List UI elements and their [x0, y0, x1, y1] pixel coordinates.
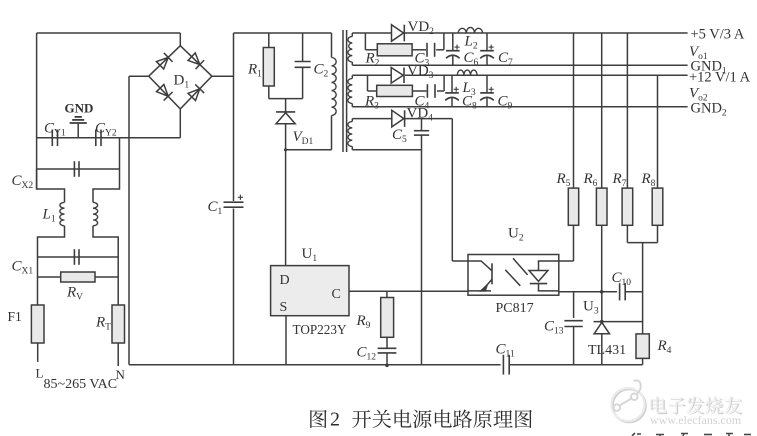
- wire bias winding top: [352, 118, 392, 120]
- wire RT to N terminal: [117, 343, 119, 366]
- wire top rail (AC live to bridge): [37, 32, 181, 34]
- inductor L1 right winding: [93, 202, 98, 225]
- capacitor C7: [486, 33, 488, 50]
- wire bias column down to U2 collector pin: [451, 119, 453, 261]
- resistor RV (varistor) row: [38, 276, 61, 278]
- transformer secondary winding 2 (+12V): [351, 75, 353, 78]
- inductor L1 left winding: [60, 202, 65, 225]
- transformer secondary winding 1 (+5V): [351, 33, 353, 37]
- wire drain column to U1 D pin: [285, 150, 287, 266]
- fuse F1: [31, 305, 44, 343]
- wire R1/C2 bottom: [269, 98, 303, 100]
- wire snubber1 left stub: [364, 33, 366, 50]
- transformer core: [342, 30, 344, 152]
- capacitor C3: [426, 43, 428, 57]
- resistor R1: [268, 33, 270, 48]
- wire secondary bottom rail: [509, 364, 642, 366]
- caption 开关电源电路原理图: [352, 410, 371, 428]
- wire primary bottom rail: [129, 364, 501, 366]
- diode D1 top-right arm: [187, 52, 204, 69]
- wire left rail: [36, 33, 38, 190]
- svg-text:GND: GND: [65, 101, 94, 116]
- capacitor CX1 row: [38, 256, 119, 258]
- capacitor CY1: [51, 130, 53, 147]
- wire R5 to U2 LED anode: [573, 225, 575, 261]
- svg-text:85~265 VAC: 85~265 VAC: [44, 377, 118, 392]
- node GND line with capacitor CY1 / CY2 row: [37, 137, 181, 139]
- inductor L2: [458, 27, 482, 33]
- wire bridge top stub: [179, 33, 181, 46]
- wire U2 LED cathode line: [559, 291, 617, 293]
- capacitor CY2: [95, 130, 97, 147]
- wire R6 down to feedback node: [601, 225, 603, 291]
- wire U1 source pin to bottom rail: [285, 316, 287, 365]
- svg-text:+5 V/3 A: +5 V/3 A: [691, 27, 745, 43]
- wire filter left elbow: [37, 169, 65, 202]
- svg-text:F1: F1: [8, 309, 22, 324]
- svg-text:2: 2: [330, 409, 340, 431]
- capacitor C4: [426, 84, 428, 98]
- transformer primary winding: [331, 33, 333, 58]
- capacitor C2: [302, 33, 304, 62]
- svg-text:GND2: GND2: [691, 101, 727, 119]
- transistor U3 TL431 shunt regulator: [601, 292, 603, 322]
- resistor R4: [636, 334, 649, 359]
- wire DC- column down to bottom rail: [128, 76, 130, 365]
- capacitor C5: [421, 119, 423, 131]
- svg-text:D: D: [280, 273, 290, 288]
- wire bridge bottom stub: [179, 109, 181, 138]
- ground symbol GND: [77, 123, 79, 138]
- capacitor C6: [452, 33, 454, 50]
- wire bridge right vertex to DC+ column: [212, 75, 234, 77]
- transformer bias winding 3: [351, 119, 353, 122]
- svg-text:L: L: [36, 366, 44, 381]
- diode D1 top-left arm: [156, 53, 173, 70]
- node primary return junction: [284, 148, 287, 151]
- svg-text:S: S: [280, 300, 288, 315]
- svg-text:TL431: TL431: [588, 343, 626, 358]
- wire L1 right bottom elbow: [93, 226, 118, 305]
- resistor R6: [601, 33, 603, 188]
- resistor R9: [386, 291, 388, 297]
- diode VD4: [392, 110, 404, 127]
- phototransistor inside U2: [491, 263, 493, 284]
- wire VD1 junction to primary winding bottom: [286, 149, 332, 151]
- diode VD2: [392, 25, 404, 42]
- wire snubber2 left stub: [367, 75, 369, 91]
- node R6 feedback junction: [600, 290, 604, 294]
- wire snubber top rail: [234, 32, 332, 34]
- inductor L3: [457, 70, 477, 75]
- capacitor C13: [573, 292, 575, 318]
- wire fuse to L terminal: [37, 343, 39, 362]
- optocoupler U2 PC817 box: [468, 255, 559, 296]
- wire bias winding bottom: [352, 149, 421, 151]
- wire +5V output line: [352, 32, 391, 34]
- wire snubber2 row: [368, 90, 377, 92]
- capacitor C10: [619, 283, 621, 300]
- wire GND1 rail: [352, 64, 687, 66]
- decorative bottom edge fragments: [632, 433, 751, 436]
- watermark logo circle: [612, 380, 646, 422]
- caption 图2: [310, 410, 327, 428]
- bridge rectifier D1 outline: [149, 46, 212, 109]
- diode D1 bottom-left arm: [156, 84, 173, 101]
- watermark text 电子发烧友: [652, 397, 668, 414]
- diode D1 bottom-right arm: [187, 84, 204, 101]
- wire bias return column to bottom rail: [421, 150, 423, 365]
- LED inside U2: [539, 261, 559, 271]
- resistor R8: [657, 75, 659, 188]
- thermistor RT: [112, 305, 125, 343]
- op-amp U1 TOP223Y box: [271, 266, 349, 316]
- svg-text:+12 V/1 A: +12 V/1 A: [689, 70, 751, 86]
- capacitor C1 (bulk electrolytic): [224, 201, 244, 203]
- capacitor CX2 row: [37, 168, 120, 170]
- wire snubber2 right stub: [443, 75, 445, 91]
- wire L1 left bottom elbow: [38, 226, 65, 305]
- wire snubber1 right stub: [443, 33, 445, 50]
- capacitor C12: [386, 337, 388, 348]
- light arrows inside U2: [513, 258, 528, 275]
- svg-text:TOP223Y: TOP223Y: [293, 322, 347, 337]
- capacitor C9: [486, 75, 488, 92]
- wire snubber1 row: [365, 49, 377, 51]
- wire DC+ column x=233.5: [233, 33, 235, 201]
- resistor R7: [626, 33, 628, 188]
- wire CY row junction column: [119, 138, 121, 169]
- wire R7/R8 junction: [626, 225, 628, 242]
- capacitor C11 (Y-cap between grounds): [502, 355, 504, 375]
- resistor R5: [573, 33, 575, 188]
- wire VD4 to optocoupler column: [405, 118, 452, 120]
- wire bridge left vertex to DC- column: [129, 75, 149, 77]
- wire divider column down to R4: [642, 243, 644, 334]
- wire filter right elbow: [93, 169, 120, 202]
- wire U1 control pin line: [349, 290, 468, 292]
- resistor R2: [377, 44, 412, 56]
- resistor R3: [377, 85, 413, 96]
- svg-text:www.elecfans.com: www.elecfans.com: [650, 413, 742, 427]
- diode VD1 (clamp): [285, 99, 287, 112]
- diode VD3: [391, 68, 403, 84]
- svg-text:C: C: [332, 287, 341, 302]
- svg-text:PC817: PC817: [496, 301, 534, 316]
- capacitor C8: [451, 75, 453, 92]
- wire GND2 rail: [352, 106, 687, 108]
- wire +12V output line: [352, 74, 391, 76]
